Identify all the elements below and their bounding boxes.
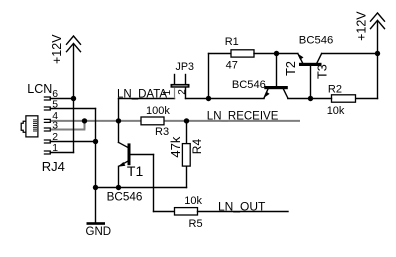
power +12V left symbol [67, 36, 81, 52]
svg-text:3: 3 [52, 120, 58, 131]
wire pin2 right [50, 141, 95, 143]
gray pin3 horizontal wire [51, 129, 86, 131]
wire to R5 left [154, 211, 175, 213]
gray net LN_RECEIVE horizontal wire [51, 120, 300, 122]
transistor T3 [297, 53, 321, 98]
wire +12V right rail [377, 21, 379, 98]
pin 5 fork [44, 107, 51, 110]
svg-text:GND: GND [86, 226, 112, 238]
svg-text:2: 2 [177, 89, 188, 95]
wire T2 base drop [276, 54, 278, 87]
wire T3 collector to +12V rail [322, 53, 378, 55]
svg-text:R1: R1 [225, 36, 239, 48]
wire R5 right LN_OUT [198, 211, 289, 213]
wire LN_DATA riser [118, 99, 120, 121]
junction GND/T1 emitter [116, 185, 121, 190]
resistor R4 [182, 144, 190, 167]
transistor T1 [118, 121, 154, 188]
svg-text:1: 1 [162, 89, 173, 95]
jumper JP3 [171, 75, 190, 99]
pin 3 fork [44, 128, 51, 131]
junction T3 base / R2 [308, 96, 313, 101]
connector RJ4 jack body [21, 116, 38, 137]
resistor R1 [231, 50, 254, 57]
junction pin2/pin5 [93, 139, 98, 144]
wire R1 right [254, 53, 277, 55]
svg-text:R5: R5 [189, 218, 203, 230]
svg-text:R4: R4 [190, 139, 204, 155]
svg-text:LN_OUT: LN_OUT [218, 200, 266, 214]
junction gray line / pin3 riser [82, 118, 87, 123]
pin 4 fork [44, 119, 51, 122]
svg-text:10k: 10k [327, 105, 345, 117]
svg-text:JP3: JP3 [176, 61, 194, 73]
svg-text:100k: 100k [146, 105, 170, 117]
wire R2 left to node [311, 98, 332, 100]
svg-text:10k: 10k [184, 195, 202, 207]
wire to R1 left [209, 53, 232, 55]
junction R1/T2 base/T3 emitter [274, 51, 279, 56]
svg-text:R3: R3 [155, 126, 169, 138]
svg-text:LN_RECEIVE: LN_RECEIVE [207, 110, 279, 122]
svg-text:R2: R2 [328, 84, 342, 96]
svg-text:LCN: LCN [27, 82, 52, 96]
junction gray line / T1 collector [116, 118, 121, 123]
svg-text:BC546: BC546 [299, 34, 334, 46]
resistor R5 [175, 208, 198, 215]
wire pin1 to rail [50, 152, 73, 154]
wire LN_DATA horizontal [119, 98, 175, 100]
svg-text:RJ4: RJ4 [42, 159, 65, 174]
wire rail bottom to R2 [356, 98, 378, 100]
wire data level to T2 emitter [209, 98, 265, 100]
svg-text:BC546: BC546 [232, 79, 266, 91]
wire JP3 pin2 to node [186, 98, 209, 100]
svg-text:47k: 47k [168, 136, 183, 157]
svg-text:BC546: BC546 [107, 190, 143, 203]
power +12V right symbol [371, 13, 385, 29]
ground symbol [87, 222, 106, 225]
pin 1 fork [44, 151, 51, 154]
svg-text:T3: T3 [316, 64, 330, 79]
wire to T3 emitter [277, 53, 298, 55]
svg-text:47: 47 [226, 59, 238, 71]
wire R4 bottom to GND line [186, 166, 188, 187]
pin 2 fork [44, 140, 51, 143]
junction +12V rail [375, 51, 380, 56]
wire +12V rail down to pin1 [73, 44, 75, 152]
wire T2 collector to T3 base node [288, 98, 311, 100]
pin 6 fork [44, 97, 51, 100]
resistor R3 [141, 117, 164, 125]
transistor T2 [263, 86, 288, 98]
wire pin5 down to GND [95, 109, 97, 223]
gray pin3 riser wire [84, 121, 86, 130]
wire GND horizontal [96, 187, 187, 189]
junction R3 right / R4 top [184, 118, 189, 123]
junction R1-left / data line [206, 96, 211, 101]
resistor R2 [332, 95, 356, 102]
wire pin6 to +12V rail [50, 98, 73, 100]
junction pin6/+12V [71, 96, 76, 101]
junction GND/pin5 [93, 185, 98, 190]
svg-text:+12V: +12V [354, 11, 368, 41]
wire T1 base down [153, 155, 155, 212]
wire R4 top [186, 121, 188, 144]
svg-text:T2: T2 [284, 61, 298, 76]
wire pin5 right [50, 108, 95, 110]
svg-text:T1: T1 [127, 163, 144, 179]
svg-text:+12V: +12V [50, 34, 64, 64]
wire node up to R1 [208, 54, 210, 99]
